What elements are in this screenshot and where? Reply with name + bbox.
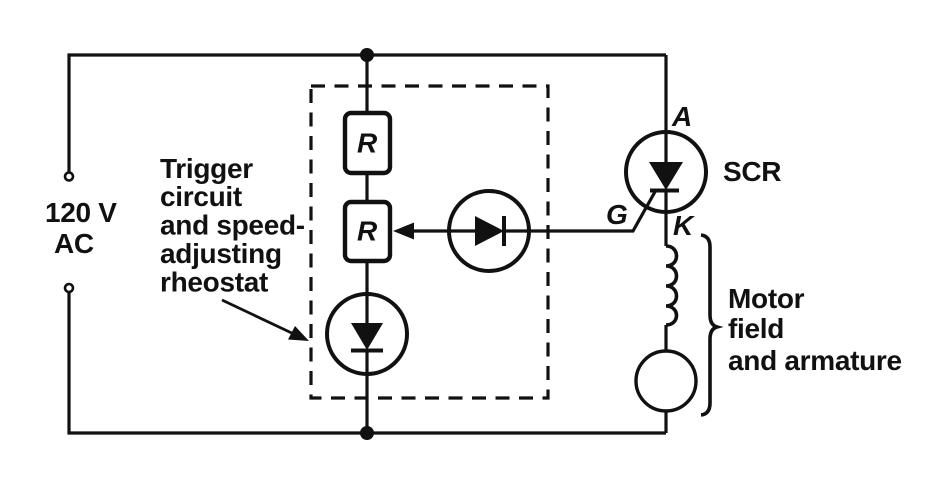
svg-text:rheostat: rheostat xyxy=(160,267,268,298)
svg-text:and armature: and armature xyxy=(728,345,902,376)
svg-text:A: A xyxy=(671,101,692,132)
svg-text:K: K xyxy=(673,210,695,241)
svg-text:and speed-: and speed- xyxy=(160,210,305,241)
svg-text:AC: AC xyxy=(54,228,94,259)
svg-text:adjusting: adjusting xyxy=(160,238,282,269)
svg-text:R: R xyxy=(357,128,378,159)
svg-text:Trigger: Trigger xyxy=(160,153,253,184)
svg-text:SCR: SCR xyxy=(723,156,781,187)
svg-text:R: R xyxy=(357,216,378,247)
svg-text:Motor: Motor xyxy=(728,283,805,314)
svg-text:circuit: circuit xyxy=(160,181,242,212)
svg-text:field: field xyxy=(728,313,784,344)
svg-text:120 V: 120 V xyxy=(45,197,117,228)
svg-text:G: G xyxy=(606,199,628,230)
